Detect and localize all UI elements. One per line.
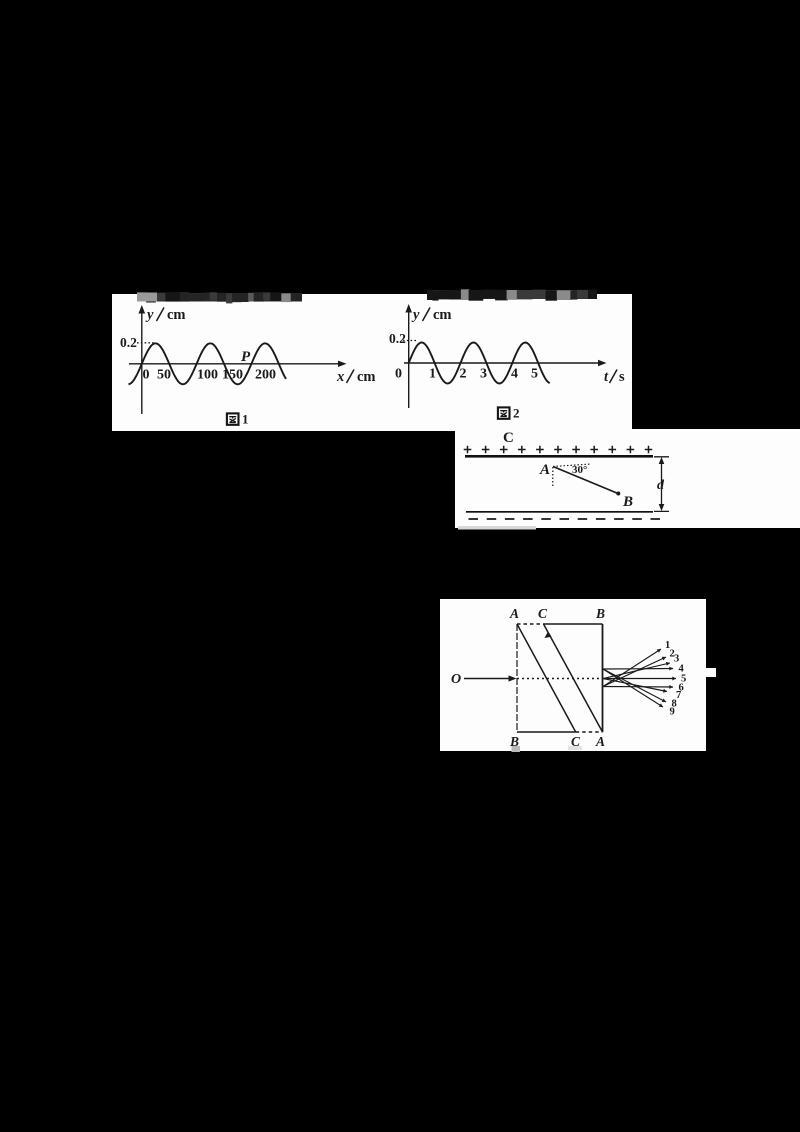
svg-text:5: 5: [531, 367, 538, 382]
negative charge row: [469, 518, 661, 520]
svg-text:cm: cm: [357, 369, 376, 385]
refracted ray 2: [603, 649, 675, 687]
svg-text:4: 4: [511, 367, 518, 382]
incident ray O arrow: [464, 675, 517, 681]
dotted horizontal reference from A: [553, 464, 591, 467]
glass block top edge dashed A to C: [517, 623, 544, 625]
fig1 sine curve: [129, 343, 287, 384]
refracted ray 1: [603, 640, 670, 687]
segment A to B: [553, 467, 618, 494]
svg-text:1: 1: [242, 412, 249, 427]
svg-text:0: 0: [143, 368, 150, 383]
svg-text:C: C: [538, 606, 548, 621]
svg-text:150: 150: [222, 368, 243, 383]
fig1 y-axis: [139, 305, 146, 414]
svg-text:B: B: [622, 494, 633, 510]
refracted ray 9: [603, 669, 675, 718]
svg-text:A: A: [509, 606, 519, 621]
prism face diagonal A-C: [517, 624, 576, 732]
refracted ray 4: [603, 664, 685, 675]
dotted vertical from A: [552, 467, 554, 486]
bottom plate: [466, 511, 653, 513]
svg-text:O: O: [451, 672, 461, 687]
svg-text:C: C: [503, 430, 514, 446]
fig2 x-axis label t/s: [604, 369, 625, 385]
svg-text:A: A: [539, 462, 550, 478]
dotted axis through block: [517, 678, 610, 680]
faint gray scan mark below block bottom C: [568, 746, 582, 750]
positive charge row: [464, 446, 653, 454]
svg-text:200: 200: [255, 368, 276, 383]
refracted ray 5: [603, 674, 686, 685]
svg-text:7: 7: [676, 690, 681, 701]
svg-text:2: 2: [513, 406, 520, 421]
fig1 dotted amplitude line: [137, 342, 154, 344]
point B dot: [616, 492, 620, 496]
svg-text:1: 1: [429, 367, 436, 382]
fig2 y-axis label y/cm: [411, 307, 452, 323]
glass block top edge solid C to B: [544, 623, 603, 625]
svg-text:0: 0: [395, 367, 402, 382]
svg-text:cm: cm: [433, 307, 452, 323]
fig2 x-axis: [404, 360, 607, 366]
svg-text:50: 50: [157, 368, 171, 383]
plate gap dimension arrow d: [654, 457, 669, 512]
svg-text:B: B: [595, 606, 605, 621]
prism face diagonal C-A with direction arrowhead: [544, 624, 603, 732]
svg-text:0.2: 0.2: [120, 335, 137, 350]
svg-text:cm: cm: [167, 307, 186, 323]
svg-text:s: s: [619, 369, 625, 385]
fig1 x-axis: [129, 361, 347, 367]
refracted ray 3: [603, 654, 679, 679]
fig2 caption: [498, 406, 520, 421]
fig1 y-axis label y/cm: [145, 307, 186, 323]
svg-text:0.2: 0.2: [389, 331, 406, 346]
svg-text:A: A: [595, 734, 605, 749]
figure box: wave graphs (fig1 and fig2): [112, 294, 632, 431]
fig1 caption: [227, 412, 249, 427]
svg-text:x: x: [336, 369, 344, 385]
refracted ray 6: [603, 683, 684, 694]
top plate: [465, 455, 653, 458]
smudged cut-off text above fig2: [427, 289, 597, 300]
white tab right of dispersion box: [706, 668, 716, 677]
svg-text:30°: 30°: [572, 464, 587, 476]
svg-text:100: 100: [197, 368, 218, 383]
glass block left face: [516, 624, 518, 732]
glass block bottom edge solid B to C: [517, 731, 576, 733]
gray scan smear at plate figure bottom: [458, 526, 536, 530]
refracted ray 8: [603, 669, 677, 710]
svg-text:P: P: [241, 349, 251, 365]
gray scan mark below block bottom-left: [512, 746, 521, 752]
svg-text:9: 9: [670, 707, 675, 718]
fig2 sine curve: [409, 343, 550, 384]
fig1 x-axis label x/cm: [336, 369, 376, 385]
svg-text:3: 3: [480, 367, 487, 382]
figure box: glass block dispersion: [440, 599, 706, 751]
figure box: charged parallel plates: [455, 429, 800, 528]
fig2 dotted amplitude line: [403, 340, 418, 342]
svg-text:y: y: [145, 307, 154, 323]
glass block bottom edge dashed C to A: [576, 731, 603, 733]
fig2 y-axis: [405, 304, 412, 408]
svg-text:2: 2: [460, 367, 467, 382]
smudged cut-off text above fig1: [137, 292, 302, 303]
svg-text:d: d: [657, 478, 665, 493]
glass block right face: [602, 624, 604, 732]
svg-text:y: y: [411, 307, 420, 323]
refracted ray 7: [603, 679, 681, 702]
